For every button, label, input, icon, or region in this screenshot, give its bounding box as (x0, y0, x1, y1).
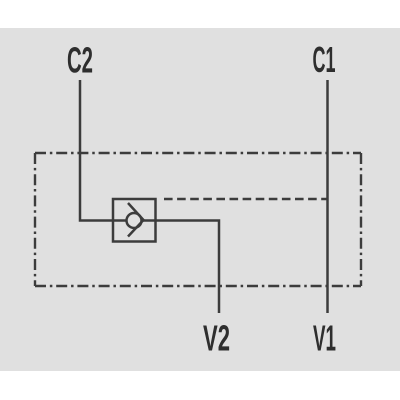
svg-text:V1: V1 (313, 318, 336, 359)
check valve envelope (body square) (113, 199, 156, 242)
wire C1 to V1 (326, 80, 329, 313)
check valve seat (128, 203, 144, 237)
valve assembly boundary right edge (dash-dot) (360, 153, 362, 286)
wire C2 to check valve inlet (80, 80, 127, 221)
svg-text:V2: V2 (203, 318, 230, 359)
check valve ball (127, 213, 142, 228)
wire check valve outlet to V2 (142, 221, 220, 314)
pilot line (dashed) valve to C1/V1 wire (164, 198, 328, 200)
valve assembly boundary bottom edge (dash-dot) (35, 285, 361, 287)
valve assembly boundary left edge (dash-dot) (34, 153, 36, 286)
valve assembly boundary top edge (dash-dot) (35, 152, 361, 154)
svg-text:C1: C1 (313, 39, 336, 80)
svg-text:C2: C2 (67, 40, 93, 81)
